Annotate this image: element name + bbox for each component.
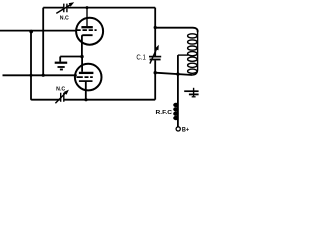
capacitor N.C (top) plates	[64, 4, 67, 13]
capacitor bypass plate bottom	[189, 93, 199, 95]
svg-text:C.1: C.1	[136, 52, 146, 61]
tube V1 envelope	[76, 18, 103, 45]
capacitor C1 plates	[149, 56, 161, 58]
wire right vertical upper (to C1)	[154, 8, 156, 56]
wire grid line tube V1 (left input line A)	[0, 30, 76, 32]
capacitor bypass to ground (bottom right) lead	[193, 88, 195, 97]
capacitor N.C (top) arrow	[56, 2, 74, 13]
tube V2 envelope	[75, 64, 102, 91]
tube V1 plate bar	[81, 26, 92, 28]
terminal B+ circle	[176, 127, 180, 131]
svg-text:R.F.C: R.F.C	[156, 110, 173, 116]
wire vertical C	[42, 8, 44, 76]
tube V1 cathode	[82, 35, 93, 56]
tube V2 cathode	[79, 80, 93, 82]
capacitor C1 arrow	[150, 45, 159, 64]
capacitor N.C (bottom) plates	[61, 93, 64, 102]
svg-text:B+: B+	[182, 128, 190, 134]
wire ground branch	[60, 56, 81, 58]
svg-text:N.C: N.C	[56, 86, 65, 92]
node junction cathode V2 / bottom rail	[84, 98, 87, 101]
node junction at line A / vertical B	[29, 30, 33, 34]
node junction plate V1 on top rail	[86, 6, 89, 9]
tube V2 cathode lead	[85, 81, 87, 99]
tube V2 plate lead	[81, 57, 83, 72]
inductor L1 loops	[188, 34, 197, 73]
capacitor bypass plate top	[184, 90, 198, 92]
wire coil top branch	[155, 28, 197, 33]
capacitor N.C (bottom) arrow	[55, 90, 69, 104]
node junction coil branch	[154, 26, 157, 29]
node junction link line / B+ feed	[176, 72, 179, 75]
wire top rail right of capacitor	[68, 7, 156, 9]
tube V2 grid dashes	[76, 76, 92, 78]
tube V1 plate lead	[86, 8, 88, 27]
tube V1 grid dashes	[76, 29, 96, 31]
wire coil tap	[178, 54, 188, 56]
wire top rail left of capacitor	[43, 7, 63, 9]
ground symbol	[55, 57, 67, 70]
wire right vertical lower (C1 to bottom rail)	[154, 60, 156, 99]
wire grid line tube V2 (left input line E)	[3, 74, 77, 76]
node junction C/E	[42, 74, 45, 77]
wire link line to coil bottom	[155, 73, 192, 75]
wire bottom rail right segment	[64, 99, 155, 101]
inductor L1 spine	[192, 32, 197, 75]
node junction C1 bottom / link line	[154, 71, 157, 74]
tube V2 plate bar	[79, 72, 94, 74]
wire vertical B with bottom rail left segment	[31, 31, 60, 100]
svg-text:N.C: N.C	[60, 15, 69, 21]
inductor RFC bumps	[173, 103, 178, 121]
wire B+ feed vertical	[177, 55, 179, 127]
node junction B/E	[30, 74, 33, 77]
ground bar small (bottom right)	[192, 96, 196, 98]
node junction cathode V1 / ground / plate V2	[80, 55, 83, 58]
